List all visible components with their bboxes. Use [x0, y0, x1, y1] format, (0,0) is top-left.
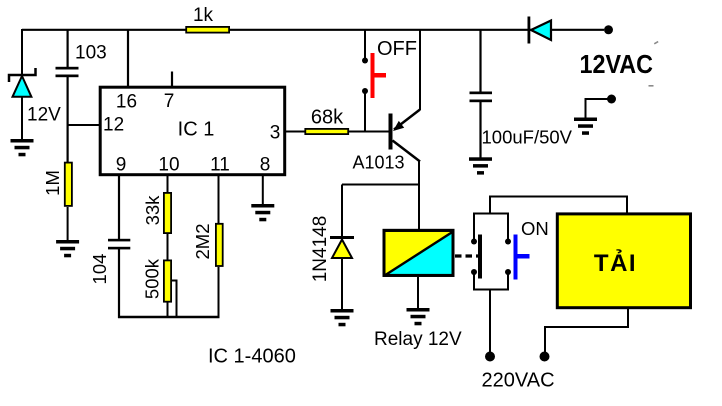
node OFF bottom contact: [362, 88, 368, 94]
ground (zener): [11, 139, 34, 156]
wire 100uF to ground: [479, 102, 481, 158]
wire 103 branch from rail: [66, 29, 68, 68]
wire right terminal to load: [545, 307, 628, 352]
wire collector to 1N4148: [342, 184, 419, 186]
load box TAI: [557, 214, 690, 308]
svg-text:9: 9: [116, 155, 127, 176]
svg-text:10: 10: [158, 155, 179, 176]
wire pin 8 down: [262, 176, 264, 204]
wire 500k bottom to rail: [167, 303, 169, 319]
wire emitter to top rail: [419, 29, 421, 110]
wire 1N4148 top lead: [341, 185, 343, 239]
wire zener branch (top rail to zener): [21, 29, 23, 75]
wire 1M to ground: [67, 207, 69, 240]
transistor Q1 A1013 (PNP): [389, 110, 421, 162]
wire OFF branch from rail: [364, 29, 366, 60]
resistor R 1M: [65, 163, 72, 206]
svg-text:2M2: 2M2: [192, 224, 213, 260]
stray mark 2: [649, 85, 654, 87]
wire pin 7 stub (floating): [171, 72, 173, 88]
wire bottom RC rail: [118, 316, 220, 319]
diode D input rectifier: [528, 17, 552, 44]
svg-text:12VAC: 12VAC: [580, 51, 654, 79]
node 220VAC terminal right: [540, 352, 550, 362]
ground (12VAC): [574, 118, 597, 135]
svg-text:1k: 1k: [193, 5, 214, 26]
ground (100uF): [469, 157, 492, 174]
wire pin16 branch from rail: [127, 29, 129, 87]
wire relay actuator (dashed): [455, 254, 478, 257]
svg-text:11: 11: [210, 155, 230, 176]
svg-text:A1013: A1013: [353, 153, 405, 173]
svg-text:1N4148: 1N4148: [310, 216, 331, 283]
wire 1N4148 to ground: [341, 258, 343, 309]
zener diode D 12V: [9, 68, 36, 139]
svg-text:1M: 1M: [42, 170, 63, 196]
svg-text:IC 1: IC 1: [178, 119, 215, 141]
svg-text:IC 1-4060: IC 1-4060: [208, 346, 296, 368]
node 12VAC terminal bottom: [607, 95, 616, 104]
wire 100uF branch from rail: [479, 29, 481, 93]
wire switch bottom to 220VAC terminal: [489, 290, 491, 354]
wire collector down to relay: [418, 161, 420, 230]
wire OFF bottom to base wire: [364, 91, 366, 132]
wire pin 11 down: [218, 176, 220, 224]
switch OFF lever (red): [371, 53, 387, 98]
wire terminal to ground: [586, 99, 612, 118]
wire pin 9 down: [118, 176, 120, 240]
wire 68k to base: [349, 131, 389, 133]
ground (relay): [407, 308, 430, 325]
node contact dots: [471, 239, 511, 276]
wire top +12V rail: [22, 29, 604, 31]
resistor R 33k: [164, 193, 171, 233]
resistor R 68k: [305, 129, 348, 134]
wire 103 to pin12 node and down to 1M: [66, 76, 68, 162]
svg-text:Relay 12V: Relay 12V: [374, 329, 462, 350]
ground (pin 8): [251, 204, 274, 221]
switch contact block (relay contacts + ON button): [474, 213, 508, 291]
capacitor C 104: [108, 239, 130, 250]
resistor R 2M2: [216, 224, 223, 266]
wire pin 10 down: [167, 176, 169, 193]
svg-text:7: 7: [164, 91, 175, 112]
switch ON button lever (blue): [514, 235, 530, 280]
node 12VAC terminal top: [604, 25, 613, 34]
diode D 1N4148: [330, 236, 354, 258]
wire pin 3 to 68k: [286, 131, 305, 133]
svg-text:220VAC: 220VAC: [482, 370, 555, 392]
capacitor C 100uF/50V: [470, 92, 493, 103]
wire 2M2 to bottom rail: [218, 267, 220, 318]
svg-text:8: 8: [260, 155, 271, 176]
svg-text:12V: 12V: [27, 105, 61, 126]
svg-text:104: 104: [89, 254, 110, 285]
stray mark 1: [654, 41, 659, 45]
node 220VAC terminal left: [485, 352, 495, 362]
ground (1N4148): [331, 309, 354, 326]
IC U1 IC1 (CD4060) box: [100, 87, 285, 175]
svg-text:ON: ON: [521, 218, 549, 239]
svg-text:103: 103: [75, 43, 107, 64]
svg-text:3: 3: [270, 123, 281, 144]
svg-text:OFF: OFF: [377, 38, 417, 60]
resistor R 1k (on top rail): [186, 27, 229, 33]
resistor R 500k (preset): [164, 260, 171, 301]
wire 33k to 500k: [167, 234, 169, 260]
wire relay to ground: [417, 277, 419, 308]
switch relay contact lever (black): [478, 235, 482, 279]
svg-text:33k: 33k: [142, 195, 163, 226]
svg-text:16: 16: [116, 92, 137, 113]
svg-text:68k: 68k: [311, 107, 344, 129]
wire switch top feed: [490, 197, 627, 215]
node OFF top contact: [362, 58, 368, 64]
wire pin 12 to node: [68, 124, 99, 126]
relay K1 coil box: [384, 230, 453, 275]
capacitor C 103: [56, 67, 79, 77]
wire 500k wiper: [172, 281, 177, 318]
wire 104 to bottom rail: [118, 249, 120, 318]
ground (1M): [56, 240, 79, 257]
svg-text:12: 12: [103, 115, 124, 136]
svg-text:500k: 500k: [142, 258, 163, 299]
svg-text:TẢI: TẢI: [594, 248, 637, 277]
svg-text:100uF/50V: 100uF/50V: [482, 127, 573, 148]
